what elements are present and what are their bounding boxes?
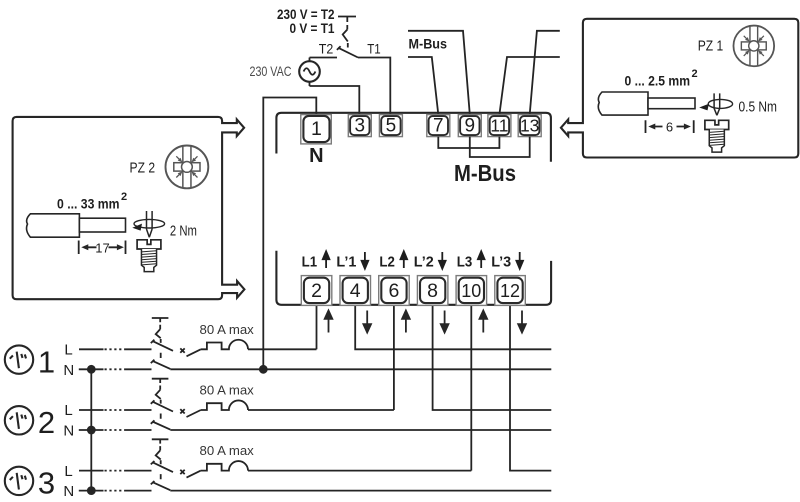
breaker Q1 actuator bar <box>152 318 169 322</box>
terminal screw icon PZ1 <box>705 120 729 152</box>
svg-text:PZ 2: PZ 2 <box>130 160 156 177</box>
junction dot N phase 1 <box>259 365 268 374</box>
breaker Q1 trip cross <box>180 348 184 352</box>
wire L phase 3 to breaker <box>126 470 152 472</box>
terminal 11 <box>488 115 511 137</box>
label arrow L'1 down <box>362 252 369 269</box>
label arrow L2 up <box>401 251 408 268</box>
meter icon phase 1 <box>5 345 33 373</box>
wire L phase 2 to breaker <box>126 409 152 411</box>
svg-text:3: 3 <box>38 466 55 501</box>
tariff control input bar <box>338 17 356 23</box>
svg-text:2 Nm: 2 Nm <box>170 223 197 239</box>
breaker Q2 dashed link <box>156 386 161 419</box>
cable conductor PZ1 <box>648 98 695 109</box>
wire terminal 8 to L'2 out <box>433 306 552 411</box>
svg-text:L’2: L’2 <box>414 254 434 271</box>
wire M-Bus upper to terminal 9 <box>408 31 470 115</box>
junction dot neutral bus row 1 <box>87 365 96 374</box>
current arrow up at terminal 10 <box>480 311 488 333</box>
terminal 10 <box>456 276 487 306</box>
wire N phase 3 dotted <box>105 490 126 492</box>
svg-text:5: 5 <box>386 116 397 137</box>
svg-text:80 A max: 80 A max <box>200 443 255 458</box>
wire M-Bus out lower to terminal 11 <box>499 57 559 115</box>
svg-text:0 ... 33 mm: 0 ... 33 mm <box>57 195 120 211</box>
svg-text:6: 6 <box>666 119 673 134</box>
svg-text:L’3: L’3 <box>491 254 511 271</box>
screwdriver torque icon PZ1 <box>699 93 732 115</box>
breaker Q2 L pole blade <box>151 400 173 411</box>
overcurrent element phase 3 <box>201 461 248 471</box>
wire L1 to terminal 2 <box>248 348 317 350</box>
svg-text:10: 10 <box>461 281 481 301</box>
current arrow up at terminal 2 <box>325 311 333 333</box>
cable insulation PZ1 <box>598 92 648 115</box>
terminal 2 <box>301 276 332 306</box>
wire L phase 1 dotted <box>105 348 126 350</box>
current arrow down at terminal 12 <box>518 311 526 333</box>
svg-text:L: L <box>64 402 72 419</box>
wire N phase 1 to breaker <box>126 368 152 370</box>
breaker Q3 dashed link <box>156 446 161 479</box>
wire terminal 6 to L2 line <box>393 306 395 411</box>
svg-text:M-Bus: M-Bus <box>409 37 448 52</box>
terminal 4 <box>340 276 371 306</box>
svg-text:4: 4 <box>350 280 361 302</box>
terminal screw icon PZ2 <box>137 240 161 272</box>
wire terminal 10 to L3 line <box>470 306 472 471</box>
svg-text:230 VAC: 230 VAC <box>250 63 292 79</box>
current arrow down at terminal 8 <box>441 311 449 333</box>
terminal 8 <box>417 276 448 306</box>
junction dot neutral bus row 2 <box>87 426 96 435</box>
label arrow L'2 down <box>439 252 446 269</box>
wire terminal 2 to L1 line <box>316 306 318 350</box>
wire M-Bus lower to terminal 7 <box>408 57 438 115</box>
svg-text:0 ... 2.5 mm: 0 ... 2.5 mm <box>625 73 691 89</box>
svg-text:8: 8 <box>427 280 438 302</box>
wire terminal 1 to N of phase 1 <box>263 98 316 370</box>
wire N phase 3 out <box>170 490 551 492</box>
wire T2 fixed contact <box>310 57 338 59</box>
svg-text:T1: T1 <box>367 42 381 57</box>
wire N phase 2 out <box>170 429 551 431</box>
svg-text:N: N <box>63 423 74 440</box>
svg-text:80 A max: 80 A max <box>200 383 255 398</box>
M-Bus jumper terminal 9 to 13 <box>470 137 530 157</box>
svg-text:L: L <box>64 342 72 359</box>
breaker Q2 actuator bar <box>152 379 169 383</box>
cable insulation PZ2 <box>27 214 80 237</box>
wire L phase 1 to breaker <box>126 348 152 350</box>
svg-text:11: 11 <box>490 116 508 136</box>
wire N phase 3 to breaker <box>126 490 152 492</box>
svg-text:17: 17 <box>95 240 109 255</box>
wire terminal 4 to L'1 out <box>355 306 551 350</box>
terminal 7 <box>427 115 450 137</box>
wire AC source to terminal 3 <box>310 86 360 115</box>
breaker Q3 L pole blade <box>151 461 173 472</box>
PZ1 info box outline with arrow <box>561 19 798 158</box>
svg-text:9: 9 <box>465 116 476 137</box>
svg-text:230 V = T2: 230 V = T2 <box>277 7 335 22</box>
svg-text:2: 2 <box>311 280 322 302</box>
svg-text:L3: L3 <box>457 254 473 271</box>
terminal 9 <box>458 115 481 137</box>
breaker Q1 N pole blade <box>151 360 171 369</box>
terminal 12 <box>495 276 526 306</box>
wire N phase 3 left <box>79 490 104 492</box>
current arrow up at terminal 6 <box>402 311 410 333</box>
overcurrent element phase 2 <box>201 400 248 410</box>
svg-text:2: 2 <box>121 191 127 203</box>
M-Bus jumper terminal 7 to 11 <box>438 137 499 148</box>
junction dot neutral bus row 3 <box>87 486 96 495</box>
svg-text:3: 3 <box>355 116 366 137</box>
breaker Q1 L pole blade <box>151 340 173 351</box>
breaker Q3 N pole blade <box>151 481 171 490</box>
svg-text:1: 1 <box>38 344 55 379</box>
svg-text:1: 1 <box>311 118 322 140</box>
breaker Q2 fuse blade <box>187 410 201 417</box>
pozidriv bit icon PZ2 <box>166 146 209 189</box>
svg-text:0.5 Nm: 0.5 Nm <box>739 99 778 115</box>
AC source 230 VAC <box>299 58 320 87</box>
tariff control dashed link <box>343 25 348 48</box>
terminal 1 <box>301 115 332 144</box>
wire L3 to terminal 10 <box>248 470 471 472</box>
wire L phase 3 left <box>79 470 104 472</box>
dimension 17 mm <box>79 240 126 255</box>
wire L phase 3 dotted <box>105 470 126 472</box>
PZ2 info box outline with arrows <box>13 117 245 299</box>
wire T1 to terminal 5 <box>358 58 390 115</box>
svg-text:L: L <box>64 463 72 480</box>
svg-text:12: 12 <box>500 281 520 301</box>
svg-text:L’1: L’1 <box>336 254 356 271</box>
tariff changeover switch blade <box>337 46 358 57</box>
terminal 6 <box>379 276 410 306</box>
terminal 3 <box>348 115 371 137</box>
svg-text:M-Bus: M-Bus <box>454 160 516 186</box>
terminal 5 <box>379 115 402 137</box>
svg-text:2: 2 <box>38 405 55 440</box>
wire L phase 2 dotted <box>105 409 126 411</box>
wire N phase 1 dotted <box>105 368 126 370</box>
device outline lower bracket <box>276 251 551 305</box>
device outline upper bracket <box>276 113 551 162</box>
breaker Q1 dashed link <box>156 325 161 358</box>
label arrow L3 up <box>478 251 485 268</box>
meter icon phase 3 <box>5 467 33 495</box>
wire N phase 1 out <box>170 368 551 370</box>
svg-text:L2: L2 <box>379 254 395 271</box>
svg-text:PZ 1: PZ 1 <box>698 37 724 54</box>
svg-text:N: N <box>63 483 74 500</box>
svg-text:T2: T2 <box>319 42 334 57</box>
svg-text:13: 13 <box>520 116 539 136</box>
breaker Q2 trip cross <box>180 409 184 413</box>
wire M-Bus out upper to terminal 13 <box>530 31 560 115</box>
current arrow down at terminal 4 <box>363 311 371 333</box>
neutral bus vertical <box>90 369 92 490</box>
wire L2 to terminal 6 <box>248 409 394 411</box>
breaker Q3 fuse blade <box>187 471 201 478</box>
wire N phase 1 left <box>79 368 104 370</box>
breaker Q3 actuator bar <box>152 439 169 443</box>
wire L phase 2 left <box>79 409 104 411</box>
terminal 13 <box>518 115 541 137</box>
wire N phase 2 left <box>79 429 104 431</box>
pozidriv bit icon PZ1 <box>733 26 774 67</box>
label arrow L1 up <box>323 251 330 268</box>
wire N phase 2 to breaker <box>126 429 152 431</box>
screwdriver torque icon PZ2 <box>132 211 164 237</box>
svg-text:6: 6 <box>388 280 399 302</box>
wire N phase 2 dotted <box>105 429 126 431</box>
cable conductor PZ2 <box>79 218 125 232</box>
overcurrent element phase 1 <box>201 340 248 350</box>
svg-text:2: 2 <box>692 68 698 80</box>
svg-text:N: N <box>309 145 323 167</box>
svg-text:L1: L1 <box>302 254 318 271</box>
label arrow L'3 down <box>516 252 523 269</box>
svg-text:N: N <box>63 362 74 379</box>
wire terminal 12 to L'3 out <box>510 306 551 471</box>
breaker Q1 fuse blade <box>187 349 201 356</box>
wire L phase 1 left <box>79 348 104 350</box>
breaker Q2 N pole blade <box>151 420 171 429</box>
dimension 6 mm <box>646 119 694 134</box>
meter icon phase 2 <box>5 406 33 434</box>
svg-text:80 A max: 80 A max <box>200 322 255 337</box>
breaker Q3 trip cross <box>180 470 184 474</box>
svg-text:0 V = T1: 0 V = T1 <box>290 21 335 36</box>
svg-text:7: 7 <box>433 116 444 137</box>
